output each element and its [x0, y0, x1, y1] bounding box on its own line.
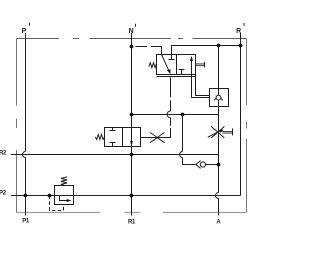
- wire R2 line: [11, 154, 219, 156]
- valve V1 right cell up arrow: [190, 56, 193, 75]
- svg-text:R1: R1: [128, 219, 136, 225]
- svg-text:A: A: [216, 219, 221, 225]
- port R2 label: [0, 150, 7, 156]
- node A top junction: [217, 44, 221, 48]
- wire N line vertical: [131, 33, 133, 216]
- node bypass junction: [181, 113, 185, 117]
- wire P supply line vertical with jump over R2: [23, 33, 26, 216]
- wire R line vertical: [240, 33, 242, 196]
- node relief pilot tap: [48, 194, 52, 198]
- valve V1 right plugged port: [196, 62, 205, 68]
- svg-text:P1: P1: [22, 219, 30, 225]
- wire V2 to A line: [132, 114, 219, 116]
- variable throttle on A line: [208, 126, 233, 137]
- throttle T1 on pilot branch: [150, 133, 165, 143]
- node R2 junction: [130, 153, 134, 157]
- valve V2 spring: [95, 135, 104, 140]
- wire R junction line at top: [172, 46, 241, 55]
- node N pilot junction: [130, 45, 134, 49]
- node N long line junction: [130, 194, 134, 198]
- frame right border: [246, 39, 248, 213]
- wire bypass down to check valve with jump: [180, 115, 196, 165]
- port R label: [236, 23, 244, 35]
- frame top border: [17, 38, 247, 40]
- node check valve to A junction: [217, 163, 221, 167]
- check valve C2: [196, 161, 219, 169]
- check valve C1 ball: [216, 95, 221, 100]
- valve V2 right cell down arrow: [130, 141, 133, 146]
- directional valve V1 body: [157, 55, 196, 77]
- check valve C1 through line: [218, 89, 220, 107]
- relief valve RV box: [55, 186, 74, 205]
- valve V1 right cell blocked port T: [179, 70, 185, 75]
- relief valve RV dashed pilot loop: [50, 196, 64, 211]
- frame left border: [16, 39, 18, 213]
- valve V2 left cell blocked ports: [110, 128, 116, 147]
- port R1 label: [128, 219, 136, 225]
- relief valve RV internal arrow: [60, 196, 72, 203]
- dashed pilot from valve bottom with jump: [141, 78, 171, 138]
- port P label: [22, 23, 30, 35]
- svg-text:R2: R2: [0, 150, 7, 156]
- dashed pilot line from N to valve: [135, 47, 162, 55]
- check valve C1 seat: [214, 95, 222, 100]
- port P2 label: [0, 190, 7, 196]
- port A label: [216, 219, 221, 225]
- valve V1 spring: [149, 63, 157, 68]
- node P P2 junction: [24, 194, 28, 198]
- port N label: [129, 24, 136, 35]
- wire long return line to R: [11, 195, 241, 197]
- wire A line top segment: [218, 46, 220, 89]
- check valve C1 box: [210, 89, 229, 107]
- frame bottom border: [17, 212, 247, 214]
- wire A line middle with jump: [216, 107, 219, 216]
- node R top junction: [239, 44, 243, 48]
- relief valve RV spring: [61, 177, 67, 185]
- solenoid valve V2 body: [105, 128, 141, 147]
- port P1 label: [22, 219, 30, 225]
- node V2 top junction: [130, 113, 134, 117]
- valve V1 left cell diagonal arrow: [162, 55, 171, 75]
- valve V1 left cell blocked port T: [169, 55, 175, 60]
- wire valve to check box double line: [192, 75, 210, 98]
- svg-text:P2: P2: [0, 190, 7, 196]
